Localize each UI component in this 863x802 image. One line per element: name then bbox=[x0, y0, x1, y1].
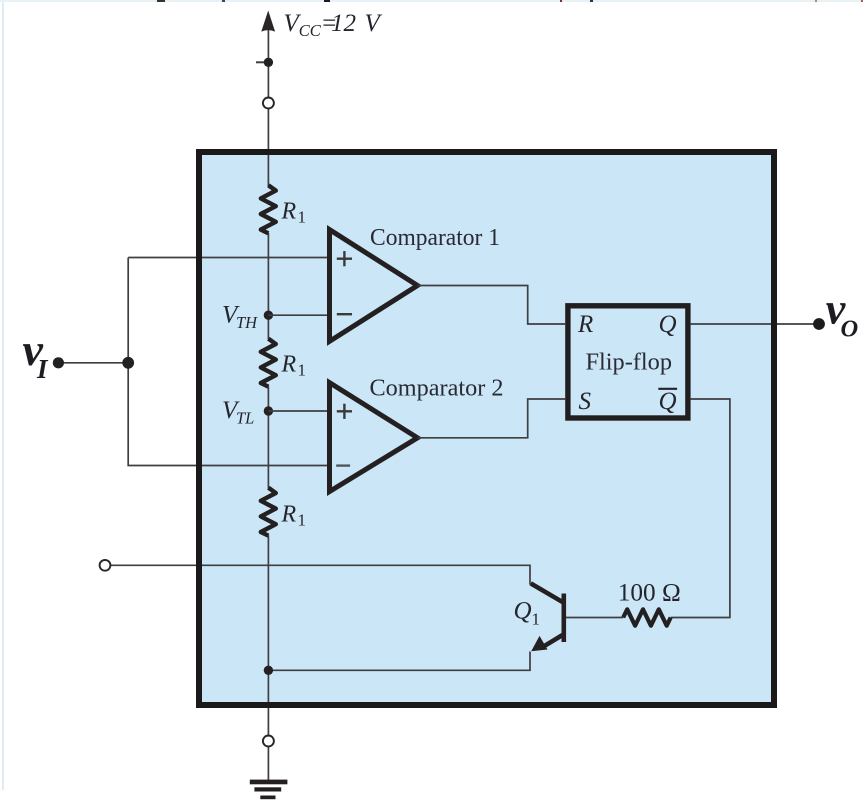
wire: base of Q1 to 100ohm bbox=[566, 617, 623, 619]
label Qbar pin bbox=[658, 388, 677, 415]
wire: rail R1 middle to R1 bottom bbox=[267, 386, 269, 488]
resistor R1 (bottom) bbox=[261, 488, 276, 536]
resistor R1 (top) bbox=[261, 185, 276, 233]
wire: vI lead bbox=[58, 362, 128, 364]
svg-text:Flip-flop: Flip-flop bbox=[586, 350, 673, 376]
label vI bbox=[23, 324, 50, 384]
VCC arrow bbox=[261, 11, 275, 32]
node: vO dot bbox=[813, 318, 825, 330]
svg-text:R: R bbox=[577, 311, 593, 338]
wire: VTH to comparator1 minus bbox=[268, 314, 329, 316]
wire: collector lead to left terminal bbox=[111, 565, 531, 584]
svg-text:1: 1 bbox=[298, 208, 307, 227]
wire: main vertical rail VCC to R1 top bbox=[267, 24, 269, 186]
svg-text:Comparator 2: Comparator 2 bbox=[370, 376, 504, 402]
node: VTL dot bbox=[264, 406, 273, 415]
resistor R1 (middle) bbox=[261, 339, 276, 387]
label vO bbox=[826, 285, 858, 343]
svg-text:S: S bbox=[579, 388, 592, 415]
wire: Qbar output down to 100ohm resistor bbox=[671, 399, 730, 618]
wire: rail R1 to R1 middle bbox=[267, 233, 269, 339]
label VTH bbox=[222, 301, 258, 332]
node: VCC junction dot bbox=[264, 58, 273, 67]
VCC label bbox=[284, 10, 383, 40]
svg-text:12: 12 bbox=[331, 10, 356, 37]
terminal: open circle bottom bbox=[263, 736, 274, 747]
wire: comparator2 output to S input bbox=[418, 399, 566, 438]
svg-text:100 Ω: 100 Ω bbox=[618, 579, 681, 606]
wire: comparator1 output to R input bbox=[418, 286, 566, 325]
IC outer box border bbox=[199, 152, 774, 705]
comparator1 plus sign bbox=[337, 251, 352, 266]
wire: left rail vertical + bend to comparator2 minus input bbox=[128, 258, 329, 466]
wire: comparator1 + input from left rail bbox=[128, 257, 329, 259]
wire: emitter lead down to rail junction bbox=[268, 652, 530, 671]
svg-text:Comparator 1: Comparator 1 bbox=[370, 225, 500, 251]
resistor 100 ohm bbox=[623, 609, 671, 625]
IC outer box (blue fill) bbox=[199, 152, 774, 705]
op-amp comparator 2 bbox=[330, 383, 418, 492]
svg-text:Q: Q bbox=[659, 311, 677, 338]
op-amp comparator 1 bbox=[330, 230, 418, 342]
svg-text:TH: TH bbox=[236, 313, 258, 332]
svg-text:R: R bbox=[281, 502, 297, 528]
terminal: open circle left bbox=[100, 560, 111, 571]
node: vI terminal dot bbox=[53, 357, 64, 368]
node: VTH dot bbox=[264, 311, 273, 320]
label R1 (middle) bbox=[281, 352, 307, 380]
terminal: open circle top bbox=[263, 98, 274, 109]
wire: rail R1 bottom to ground bbox=[267, 535, 269, 780]
label Q1 bbox=[514, 598, 541, 629]
label R1 (bottom) bbox=[281, 502, 307, 530]
svg-text:Q: Q bbox=[659, 388, 677, 415]
comparator1 minus sign bbox=[337, 313, 352, 315]
svg-text:R: R bbox=[281, 352, 297, 378]
svg-text:1: 1 bbox=[298, 361, 307, 380]
svg-text:TL: TL bbox=[236, 409, 254, 428]
page left edge scan line bbox=[2, 0, 4, 790]
svg-text:Q: Q bbox=[514, 598, 532, 625]
top cropped text fragments bbox=[0, 0, 863, 2]
tick left of VCC node bbox=[256, 61, 264, 63]
svg-text:O: O bbox=[841, 316, 859, 343]
svg-text:I: I bbox=[36, 354, 49, 384]
comparator2 plus sign bbox=[337, 404, 352, 419]
node: vI rail junction dot bbox=[122, 357, 134, 369]
wire: VTL to comparator2 plus bbox=[268, 410, 329, 412]
svg-text:CC: CC bbox=[299, 21, 322, 40]
svg-text:R: R bbox=[281, 199, 297, 225]
flip-flop U1 box bbox=[568, 306, 688, 418]
ground symbol bbox=[250, 780, 288, 800]
transistor Q1 bbox=[531, 583, 564, 651]
comparator2 minus sign bbox=[336, 464, 350, 466]
svg-text:1: 1 bbox=[532, 610, 541, 629]
node: emitter rail junction dot bbox=[264, 666, 273, 675]
label R1 (top) bbox=[281, 199, 307, 227]
wire: Q output to vO bbox=[691, 323, 814, 325]
label VTL bbox=[222, 397, 254, 428]
svg-text:1: 1 bbox=[298, 511, 307, 530]
